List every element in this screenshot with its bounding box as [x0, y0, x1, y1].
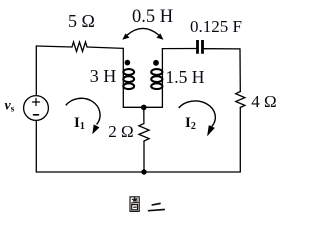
wire middle branch upper — [143, 108, 145, 124]
svg-text:0.5 H: 0.5 H — [132, 7, 173, 27]
inductor L2 1.5H coil loops — [151, 69, 162, 89]
wire top-right run right of capacitor — [204, 48, 240, 50]
wire left branch lower — [35, 121, 37, 173]
node dot L1 polarity — [125, 60, 131, 66]
wire resistor to left inductor branch — [87, 47, 123, 48]
wire middle branch lower — [143, 141, 145, 172]
wire bottom run — [36, 171, 240, 173]
wire right inductor branch — [161, 49, 163, 108]
svg-text:5 Ω: 5 Ω — [68, 11, 95, 31]
mutual coupling arrow 0.5H — [122, 28, 163, 39]
inductor L1 3H coil loops — [123, 69, 134, 89]
wire right branch upper — [239, 49, 241, 92]
source plus sign — [33, 99, 40, 106]
mesh current arrow I2 — [179, 101, 216, 136]
resistor R 2ohm zigzag — [139, 124, 149, 142]
svg-text:I2: I2 — [185, 115, 196, 132]
capacitor C 0.125F plates — [198, 40, 203, 54]
wire inductor bottom connector — [123, 106, 162, 108]
wire top-right run left of capacitor — [162, 48, 196, 50]
node junction inductors to R2 — [141, 105, 147, 111]
svg-text:3 H: 3 H — [90, 66, 117, 86]
svg-text:vs: vs — [5, 99, 15, 114]
resistor R 4ohm zigzag — [236, 92, 245, 108]
wire right branch lower — [239, 108, 241, 173]
caption glyph er (two) — [149, 204, 165, 211]
wire left inductor branch — [122, 48, 124, 107]
svg-text:4 Ω: 4 Ω — [251, 92, 276, 111]
svg-text:2 Ω: 2 Ω — [108, 122, 133, 141]
wire left branch upper — [35, 46, 37, 96]
svg-text:0.125 F: 0.125 F — [190, 17, 242, 36]
source vs circle — [24, 96, 49, 121]
wire top-left horizontal — [36, 46, 72, 47]
resistor R 5ohm zigzag — [72, 42, 87, 52]
source minus sign — [34, 114, 39, 116]
mesh current arrow I1 — [66, 98, 100, 134]
svg-text:1.5 H: 1.5 H — [166, 67, 205, 87]
node dot L2 polarity — [153, 60, 159, 66]
svg-text:I1: I1 — [74, 115, 85, 132]
caption glyph tu (figure) — [130, 197, 139, 212]
node junction bottom wire — [141, 169, 146, 174]
